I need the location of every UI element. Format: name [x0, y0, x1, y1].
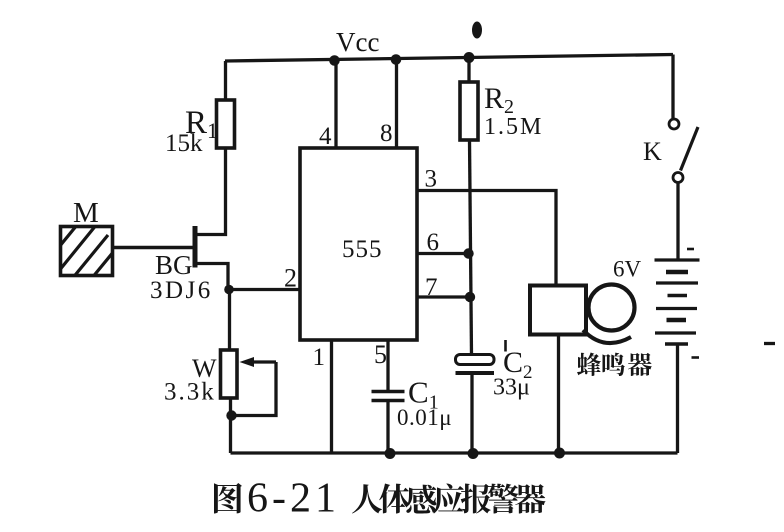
svg-text:33μ: 33μ — [493, 375, 530, 401]
svg-text:3.3k: 3.3k — [164, 379, 216, 406]
buzzer body square — [530, 286, 586, 335]
buzzer sound arc — [583, 330, 631, 343]
capacitor C1 top plate — [372, 390, 405, 394]
wire: pin 4 to Vcc — [334, 61, 337, 149]
caption char tu — [214, 483, 242, 514]
svg-text:2: 2 — [284, 264, 297, 293]
junction: BG source / pin2 / W top — [224, 285, 234, 295]
svg-text:BG: BG — [155, 250, 193, 280]
svg-text:0.01μ: 0.01μ — [397, 405, 452, 430]
label buzzer char ming — [603, 353, 625, 376]
wire: pin 1 to ground rail — [330, 340, 333, 453]
svg-text:15k: 15k — [165, 130, 203, 157]
junction: W bottom / wiper return — [226, 410, 236, 420]
wire: pin 2 of 555 — [229, 288, 300, 291]
svg-text:3DJ6: 3DJ6 — [150, 277, 213, 304]
transistor BG source lead — [197, 264, 228, 290]
svg-text:1: 1 — [313, 344, 326, 371]
battery top polarity dash — [687, 248, 694, 251]
capacitor C2 top plate (electrolytic) — [456, 355, 495, 365]
wire: pin 5 to C1 — [386, 340, 389, 392]
caption char 3 — [434, 483, 464, 513]
Vcc terminal dot — [472, 22, 482, 39]
wire: bottom ground rail — [231, 451, 678, 454]
op-amp/IC U1 555 timer body — [300, 148, 417, 340]
switch K lever — [681, 127, 699, 171]
wire: wiper to W bottom terminal — [236, 362, 276, 416]
potentiometer W wiper arrow — [240, 357, 277, 367]
switch K bottom contact — [673, 173, 683, 183]
wire: switch to battery — [676, 183, 679, 261]
stray scan mark right edge — [764, 342, 775, 345]
potentiometer W body — [221, 350, 238, 398]
wire: Vcc rail to R2 top — [467, 56, 470, 82]
wire: R1 bottom to BG drain — [197, 148, 226, 235]
label buzzer char feng — [577, 353, 601, 377]
svg-text:M: M — [73, 197, 99, 229]
wire: junction down to W top — [228, 290, 231, 351]
svg-text:5: 5 — [374, 340, 387, 369]
svg-text:7: 7 — [425, 274, 438, 301]
wire: pin 6 — [417, 252, 470, 255]
svg-text:6: 6 — [427, 229, 440, 256]
wire: W bottom to ground rail — [229, 398, 232, 453]
wire: M to BG gate — [113, 246, 193, 249]
caption char 1 — [379, 483, 410, 513]
wire: C2 to ground rail — [470, 373, 473, 453]
junction: pin4 wire / Vcc rail — [329, 55, 340, 66]
sensor plate M (touch plate) — [50, 214, 140, 317]
wire: Vcc rail to switch K — [671, 55, 674, 120]
junction: C2 / ground rail — [468, 448, 479, 459]
svg-text:4: 4 — [319, 123, 332, 150]
caption char 4 — [461, 484, 491, 514]
wire: buzzer to ground rail — [557, 335, 560, 454]
caption char 0 — [352, 484, 382, 513]
C2 polarity tick — [504, 340, 507, 352]
svg-text:6-21: 6-21 — [247, 476, 340, 522]
svg-text:K: K — [643, 137, 662, 166]
svg-text:1.5M: 1.5M — [484, 114, 543, 140]
label buzzer char qi — [628, 353, 652, 376]
junction: buzzer / ground rail — [554, 448, 565, 459]
wire: C1 to ground rail — [386, 401, 389, 454]
caption char 6 — [515, 484, 545, 513]
resistor R1 — [217, 100, 235, 148]
junction: R2 / Vcc rail — [464, 52, 475, 63]
junction: pin8 wire / Vcc rail — [391, 54, 402, 65]
svg-text:555: 555 — [342, 236, 383, 263]
svg-text:8: 8 — [380, 120, 393, 147]
wire: pin 7 — [417, 295, 470, 298]
wire: Vcc top supply rail — [225, 55, 673, 62]
svg-text:Vcc: Vcc — [336, 27, 379, 57]
wire: pin 3 output to buzzer — [417, 191, 556, 286]
junction: pin 6 / R2 wire — [463, 248, 473, 258]
capacitor C2 bottom plate — [456, 371, 495, 375]
caption char 5 — [488, 484, 518, 514]
svg-text:3: 3 — [425, 166, 438, 193]
junction: pin 7 / R2 wire — [465, 292, 475, 302]
switch K top contact — [669, 119, 679, 129]
battery 6V plates — [655, 260, 700, 344]
resistor R2 — [460, 82, 478, 140]
wire: battery to ground rail — [676, 344, 679, 453]
junction: C1 / ground rail — [385, 448, 396, 459]
buzzer coil circle — [589, 285, 635, 331]
wire: pin 8 to Vcc — [395, 60, 398, 149]
wire: R2 bottom through pins 6,7 to C2 — [470, 140, 472, 355]
wire: Vcc rail down to R1 top — [224, 61, 227, 100]
caption char 2 — [406, 485, 436, 514]
transistor BG (FET 3DJ6) channel bar — [193, 226, 198, 268]
svg-text:6V: 6V — [613, 257, 642, 282]
capacitor C1 bottom plate — [372, 399, 405, 403]
battery bottom polarity dash — [692, 356, 700, 359]
